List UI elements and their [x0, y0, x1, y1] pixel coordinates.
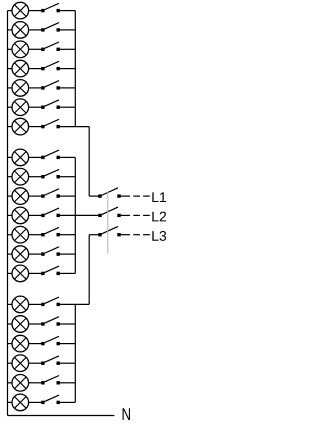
lamp E16	[8, 316, 42, 333]
wire supply lead L3 (dashed)	[121, 234, 150, 236]
lamp E15	[8, 296, 42, 313]
lamp E17	[8, 335, 42, 352]
switch S4	[41, 61, 75, 70]
switch S12	[41, 227, 75, 236]
switch S2	[41, 23, 75, 32]
lamp E1	[8, 2, 42, 19]
lamp E2	[8, 22, 42, 39]
lamp E11	[8, 207, 42, 224]
lamp E14	[8, 265, 42, 282]
wire inner bus L3 riser (L3 switch down to group 3)	[89, 235, 99, 305]
wire supply lead L2 (dashed)	[121, 214, 150, 216]
switch Q1 pole L2	[98, 207, 120, 217]
switch S10	[41, 189, 75, 198]
label L1	[152, 192, 166, 202]
lamp E7	[8, 118, 42, 135]
switch S20	[41, 395, 75, 404]
switch S19	[41, 376, 75, 385]
lamp E5	[8, 80, 42, 97]
label L3	[152, 231, 166, 241]
switch S15	[41, 297, 89, 306]
wire neutral bus (left vertical)	[7, 11, 9, 416]
switch S6	[41, 100, 75, 109]
switch S8	[41, 150, 75, 159]
lamp E19	[8, 375, 42, 392]
mechanical linkage of 3-pole switch Q1	[107, 191, 109, 253]
switch S3	[41, 42, 75, 51]
lamp E18	[8, 355, 42, 372]
switch S1	[41, 3, 75, 12]
switch S18	[41, 356, 75, 365]
switch S14	[41, 266, 75, 275]
label L2	[152, 212, 166, 222]
lamp E20	[8, 394, 42, 411]
switch S13	[41, 247, 75, 256]
lamp E3	[8, 41, 42, 58]
lamp E9	[8, 168, 42, 185]
wire bus group 1 (phase L1 feeder)	[74, 11, 76, 127]
wire supply lead L1 (dashed)	[121, 195, 150, 197]
switch S9	[41, 169, 75, 178]
lamp E10	[8, 188, 42, 205]
lamp E6	[8, 99, 42, 116]
switch S16	[41, 317, 75, 326]
wire bus group 2 (phase L2 feeder)	[74, 157, 76, 273]
switch S11	[41, 208, 99, 217]
wire bus group 3 (phase L3 feeder)	[74, 304, 76, 402]
switch S7	[41, 119, 89, 128]
wire neutral N line (bottom)	[8, 415, 115, 417]
lamp E4	[8, 60, 42, 77]
label N	[123, 408, 130, 420]
switch S17	[41, 336, 75, 345]
lamp E8	[8, 149, 42, 166]
wire inner bus L1 riser (row7 to L1 switch)	[89, 127, 99, 197]
switch Q1 pole L1	[98, 188, 120, 198]
switch Q1 pole L3	[98, 226, 120, 236]
switch S5	[41, 81, 75, 90]
lamp E13	[8, 246, 42, 263]
lamp E12	[8, 226, 42, 243]
